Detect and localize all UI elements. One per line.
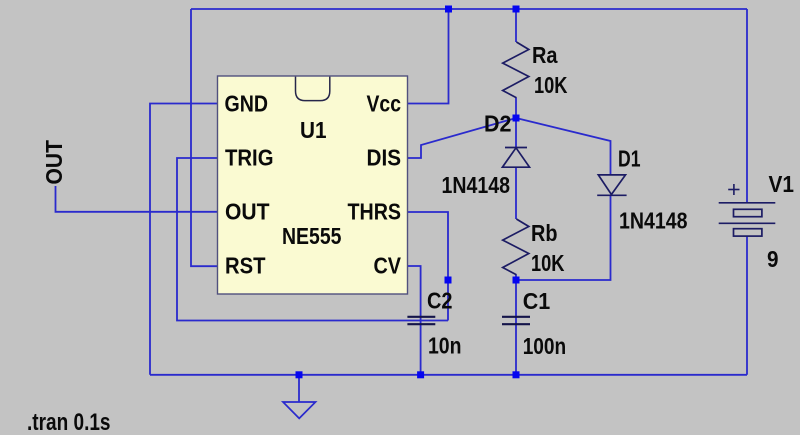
capacitor C2 plates (407, 317, 435, 324)
wire node D2 to D1 top (516, 118, 611, 175)
wire THRS pin down to TRIG corner (407, 212, 448, 321)
node ground rail / C1 (513, 371, 520, 378)
svg-text:OUT: OUT (225, 199, 270, 225)
wire D1 cathode down and left to Rb bottom node (516, 196, 611, 280)
diode D2 1N4148 (502, 148, 529, 168)
op-amp U1 NE555 body (218, 76, 408, 294)
svg-text:C1: C1 (523, 288, 551, 314)
svg-text:TRIG: TRIG (225, 145, 274, 171)
svg-text:NE555: NE555 (282, 223, 342, 249)
wire CV pin to C2 and down to ground rail (407, 266, 421, 375)
wire V1 bottom lead (746, 236, 748, 375)
wire Rb bottom lead (515, 275, 517, 281)
svg-text:9: 9 (767, 246, 779, 272)
svg-text:D2: D2 (484, 111, 512, 137)
wire right edge V1 top lead (746, 9, 748, 203)
svg-text:10K: 10K (531, 250, 565, 276)
notch on U1 top edge (296, 77, 330, 101)
wire D2 anode to Rb top (515, 167, 517, 219)
battery V1 (719, 203, 776, 236)
node ground rail / gnd symbol (296, 371, 303, 378)
wire left vertical from top rail to RST (191, 9, 218, 266)
svg-text:1N4148: 1N4148 (619, 208, 688, 234)
svg-text:.tran 0.1s: .tran 0.1s (27, 409, 111, 435)
wire OUT net stub (56, 186, 219, 212)
wire TRIG pin around left and bottom to THRS vertical (177, 158, 448, 321)
svg-text:RST: RST (225, 253, 266, 279)
svg-text:DIS: DIS (367, 145, 402, 171)
node Rb bottom / C1 (513, 277, 520, 284)
node D2 / DIS / Ra (513, 115, 520, 122)
svg-text:10K: 10K (534, 72, 568, 98)
svg-text:10n: 10n (428, 333, 462, 359)
resistor Ra 10K (503, 42, 529, 98)
wire D2 cathode stub (515, 118, 517, 147)
node junction top rail / Ra (513, 6, 520, 13)
svg-text:U1: U1 (300, 117, 327, 143)
wire Vcc pin to top rail (407, 9, 449, 104)
wire bottom ground rail (150, 374, 747, 376)
svg-text:1N4148: 1N4148 (442, 172, 511, 198)
wire GND pin to bottom rail (150, 104, 218, 375)
svg-text:D1: D1 (618, 146, 641, 172)
svg-text:100n: 100n (523, 333, 567, 359)
svg-text:Rb: Rb (531, 220, 558, 246)
wire Ra bottom lead to node D2 (515, 98, 517, 119)
wire top rail Vcc net (191, 8, 747, 10)
wire Ra top lead (515, 9, 517, 42)
wire DIS pin to node D2 (407, 118, 516, 158)
svg-text:Ra: Ra (532, 42, 558, 68)
svg-text:GND: GND (225, 91, 269, 117)
svg-text:CV: CV (374, 253, 402, 279)
diode D1 1N4148 (597, 175, 626, 195)
svg-text:V1: V1 (769, 171, 795, 197)
resistor Rb 10K (503, 219, 529, 275)
battery V1 plus sign (728, 184, 739, 195)
wire ground symbol stub (298, 375, 300, 402)
ground symbol (283, 402, 316, 418)
capacitor C1 plates (502, 317, 530, 324)
svg-text:C2: C2 (427, 288, 453, 314)
svg-text:THRS: THRS (348, 199, 402, 225)
svg-text:OUT: OUT (41, 140, 67, 185)
wire C1 top lead from Rb bottom node (515, 280, 517, 375)
svg-text:Vcc: Vcc (367, 91, 402, 117)
node junction top rail / Vcc (445, 6, 452, 13)
node ground rail / C2 (417, 371, 424, 378)
node THRS junction (445, 277, 452, 284)
